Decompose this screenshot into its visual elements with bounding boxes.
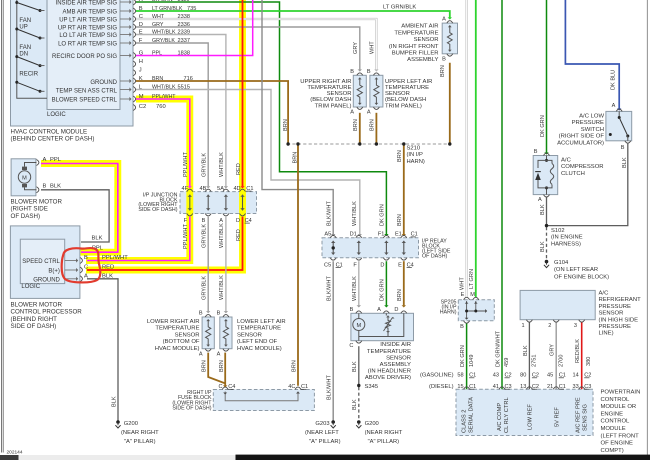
splice S210 junction dots: [286, 142, 451, 145]
wire BLK/WHT (from top of page to relay block A5): [262, 0, 335, 236]
svg-text:RED: RED: [236, 163, 242, 175]
svg-text:A: A: [377, 307, 381, 313]
wire DK GRN/WHT 459 (from top of page to PCM): [501, 0, 503, 389]
svg-text:58: 58: [457, 373, 463, 379]
fuse block pin arcs: [222, 387, 301, 389]
svg-text:WHT/BLK: WHT/BLK: [219, 275, 225, 300]
svg-text:5A: 5A: [217, 186, 224, 192]
svg-text:B: B: [534, 149, 538, 155]
svg-text:F: F: [184, 218, 188, 224]
svg-text:BLK/WHT: BLK/WHT: [327, 276, 333, 301]
svg-text:13: 13: [520, 384, 526, 390]
svg-text:B: B: [442, 56, 446, 62]
svg-text:TEMPERATURE: TEMPERATURE: [237, 326, 281, 332]
wire WHT/BLK 5515 (HVAC pin L to relay block D1): [136, 90, 362, 237]
svg-text:G104: G104: [554, 260, 569, 266]
svg-text:WHT: WHT: [460, 277, 466, 290]
splice S345: [357, 384, 360, 387]
thermistor in lower right sensor: [206, 319, 211, 346]
svg-text:A: A: [538, 197, 542, 203]
svg-text:HVAC MODULE): HVAC MODULE): [155, 346, 200, 352]
wire PPL/WHT 760 (junction block F to blower processor pin B): [87, 217, 190, 261]
svg-text:2336: 2336: [178, 22, 190, 28]
svg-text:BRN: BRN: [440, 65, 446, 77]
ground G200 left (near right A pillar): [115, 420, 120, 428]
svg-text:BLK: BLK: [92, 236, 103, 242]
svg-text:S102: S102: [551, 228, 565, 234]
lower left air temperature sensor box: [220, 317, 232, 349]
svg-text:BLK: BLK: [523, 345, 529, 356]
svg-text:MODULE: MODULE: [601, 426, 626, 432]
svg-text:ENGINE: ENGINE: [601, 411, 624, 417]
wire BLK (inside air sensor C to splice S345): [358, 346, 360, 384]
HVAC logic box: [47, 0, 120, 110]
svg-text:F: F: [139, 38, 143, 44]
svg-text:WHT: WHT: [370, 41, 376, 54]
svg-text:AMB AIR TEMP SIG: AMB AIR TEMP SIG: [63, 9, 118, 15]
svg-text:C2: C2: [139, 104, 146, 110]
svg-text:GROUND: GROUND: [90, 80, 117, 86]
svg-text:LT GRN/BLK: LT GRN/BLK: [383, 4, 416, 10]
wire WHT/BLK 2339 (HVAC pin E to junction block 5A): [136, 35, 228, 189]
svg-text:(NEAR RIGHT: (NEAR RIGHT: [365, 430, 403, 436]
svg-text:21: 21: [547, 384, 553, 390]
svg-text:BLK: BLK: [102, 273, 113, 279]
svg-text:14: 14: [572, 373, 578, 379]
A/C low pressure switch contacts: [609, 111, 630, 140]
svg-text:760: 760: [156, 104, 166, 110]
svg-text:B: B: [367, 69, 371, 75]
svg-text:WHT/BLK: WHT/BLK: [219, 152, 225, 177]
svg-text:FAN: FAN: [19, 18, 31, 24]
svg-text:SENSOR: SENSOR: [175, 332, 200, 338]
svg-text:1838: 1838: [178, 50, 190, 56]
processor pin arcs: [65, 258, 83, 282]
svg-text:380: 380: [586, 357, 592, 366]
I/P relay block box: [322, 238, 419, 258]
svg-text:GRY: GRY: [353, 42, 359, 54]
ground G104 (on left rear of engine block): [544, 260, 549, 268]
svg-text:G200: G200: [124, 421, 138, 427]
wire RED (junction block D to blower processor pin C): [87, 217, 243, 270]
svg-text:DK GRN: DK GRN: [540, 115, 546, 137]
svg-text:LOGIC: LOGIC: [21, 284, 40, 290]
svg-text:WHT/BLK: WHT/BLK: [219, 223, 225, 248]
svg-text:F1: F1: [378, 232, 385, 238]
wire PPL (blower motor pin A loop to processor): [41, 164, 118, 253]
svg-text:PRESSURE: PRESSURE: [572, 120, 604, 126]
wire BRN (lower left sensor A to fuse block pin C): [223, 353, 227, 388]
svg-text:735: 735: [187, 6, 196, 12]
svg-text:SENSOR: SENSOR: [237, 332, 262, 338]
svg-text:B: B: [202, 218, 206, 224]
svg-text:LO RT AIR TEMP SIG: LO RT AIR TEMP SIG: [58, 41, 117, 47]
svg-text:A/C: A/C: [561, 158, 572, 164]
svg-text:"A" PILLAR): "A" PILLAR): [124, 439, 156, 445]
svg-text:A/C: A/C: [599, 291, 610, 297]
svg-text:B: B: [621, 145, 625, 151]
HVAC switch bus: [17, 0, 47, 98]
page left border lines: [2, 0, 4, 453]
svg-text:(BEHIND RIGHT: (BEHIND RIGHT: [11, 316, 58, 323]
svg-text:DK GRN: DK GRN: [460, 345, 466, 367]
svg-text:K: K: [139, 76, 143, 82]
svg-text:A/C REF PRE: A/C REF PRE: [575, 397, 581, 433]
svg-text:A5: A5: [324, 232, 331, 238]
svg-text:CONTROL: CONTROL: [601, 397, 631, 403]
svg-text:WHT/BLK: WHT/BLK: [352, 201, 358, 226]
svg-text:A/C COMP: A/C COMP: [497, 403, 503, 431]
svg-text:BLOWER MOTOR: BLOWER MOTOR: [11, 198, 63, 205]
svg-text:SERIAL DATA: SERIAL DATA: [469, 397, 475, 433]
svg-text:(BOTTOM OF: (BOTTOM OF: [163, 339, 200, 345]
svg-text:PRESSURE: PRESSURE: [599, 324, 631, 330]
svg-text:TRIM PANEL): TRIM PANEL): [385, 103, 422, 109]
svg-text:C: C: [349, 343, 353, 349]
HVAC module pin arcs A-M and C2: [120, 0, 136, 111]
svg-text:B: B: [460, 324, 464, 330]
svg-text:A/C LOW: A/C LOW: [579, 114, 604, 120]
svg-text:OF DASH): OF DASH): [422, 253, 448, 259]
svg-text:B: B: [84, 255, 88, 261]
svg-text:BLK/WHT: BLK/WHT: [327, 375, 333, 400]
svg-text:4C: 4C: [288, 384, 295, 390]
svg-text:CL RLY CTRL: CL RLY CTRL: [504, 397, 510, 433]
red freehand annotation circle around processor pins: [62, 248, 101, 282]
ambient air temperature sensor box: [442, 23, 457, 54]
pressure sensor pin arcs: [526, 320, 584, 322]
svg-text:GRY: GRY: [152, 22, 164, 28]
svg-text:HVAC CONTROL MODULE: HVAC CONTROL MODULE: [11, 128, 88, 135]
wire BRN (relay block E to inside air sensor D): [402, 261, 406, 307]
svg-text:D: D: [380, 262, 384, 268]
svg-text:J: J: [139, 68, 142, 74]
I/P junction block box: [180, 192, 257, 214]
svg-text:WHT/BLK: WHT/BLK: [152, 84, 176, 90]
wire WHT/BLK (relay block F to inside air sensor B): [357, 261, 361, 307]
svg-text:BRN: BRN: [370, 119, 376, 131]
svg-text:DK GRN: DK GRN: [380, 204, 386, 226]
svg-text:G: G: [139, 50, 144, 56]
bottom scrollbar: [0, 455, 650, 460]
svg-text:ACCUMULATOR): ACCUMULATOR): [557, 140, 604, 146]
svg-text:A: A: [84, 273, 88, 279]
yellow highlight on blower motor PPL run: [41, 164, 118, 253]
wire BLK dashed (S345 to ground G200): [358, 387, 360, 421]
wire BLK (processor pin A to ground G200): [87, 279, 118, 421]
SP205 pin arcs: [464, 297, 479, 323]
svg-text:45: 45: [547, 373, 553, 379]
HVAC mode switches (FAN UP / FAN DN / RECIR): [15, 1, 44, 93]
svg-text:UPPER LEFT AIR: UPPER LEFT AIR: [385, 79, 432, 85]
wire BRN (upper right sensor A down to S210): [359, 113, 361, 144]
svg-text:PPL: PPL: [152, 50, 162, 56]
svg-text:BLK: BLK: [622, 157, 628, 168]
wire BRN (upper left sensor A down to S210): [375, 113, 377, 144]
svg-text:202144: 202144: [7, 450, 23, 456]
svg-text:GROUND: GROUND: [33, 277, 60, 283]
A/C low pressure switch box: [606, 111, 632, 140]
svg-text:RECIR: RECIR: [19, 71, 38, 77]
svg-text:S345: S345: [365, 384, 379, 390]
svg-text:5515: 5515: [178, 84, 190, 90]
svg-text:(IN HIGH SIDE: (IN HIGH SIDE: [599, 317, 639, 323]
svg-text:M: M: [139, 94, 144, 100]
svg-text:PPL/WHT: PPL/WHT: [152, 94, 176, 100]
yellow highlight on RED run: [86, 0, 243, 270]
svg-text:UP LT AIR TEMP SIG: UP LT AIR TEMP SIG: [59, 17, 117, 23]
svg-text:BLK: BLK: [352, 361, 358, 372]
wire RED/BLK 380 (pressure sensor 3 to PCM): [581, 323, 583, 390]
wire BRN (S210 down to relay block E1): [402, 144, 406, 236]
wire DK GRN 1049 (SP205 B to PCM): [466, 323, 468, 389]
svg-text:TEMPERATURE: TEMPERATURE: [394, 30, 438, 36]
svg-text:M: M: [470, 292, 475, 298]
page right border line: [646, 0, 648, 455]
svg-text:(IN I/P: (IN I/P: [407, 152, 424, 158]
svg-text:OF ENGINE BLOCK): OF ENGINE BLOCK): [554, 274, 609, 280]
svg-text:PPL/WHT: PPL/WHT: [183, 224, 189, 249]
svg-text:LOWER LEFT AIR: LOWER LEFT AIR: [237, 319, 286, 325]
svg-text:D: D: [236, 218, 240, 224]
svg-text:15: 15: [457, 384, 463, 390]
upper left air temperature sensor box: [370, 75, 383, 107]
thermistor in inside air sensor: [384, 316, 395, 334]
inside air sensor pin arcs: [356, 311, 407, 343]
svg-text:SENSOR: SENSOR: [327, 91, 352, 97]
svg-text:BLK: BLK: [540, 241, 546, 252]
splice S210 dashed bus (IN I/P HARN): [287, 143, 451, 145]
thermistor in ambient sensor: [447, 25, 452, 51]
svg-text:FAN: FAN: [19, 45, 31, 51]
svg-text:BLOWER MOTOR: BLOWER MOTOR: [11, 301, 63, 308]
wire PPL/WHT 760 (HVAC pin M to junction block 4F): [136, 99, 192, 188]
svg-text:80: 80: [520, 373, 526, 379]
svg-text:4F: 4F: [181, 186, 188, 192]
wire GRY 2336 (HVAC pin D to upper right sensor B): [136, 27, 362, 72]
svg-text:2700: 2700: [558, 355, 564, 367]
svg-text:2: 2: [548, 323, 551, 329]
svg-text:BRN: BRN: [397, 289, 403, 301]
thermistor in upper left sensor: [374, 78, 379, 105]
PCM internal pin function labels: [461, 397, 588, 433]
svg-text:TEMPERATURE: TEMPERATURE: [367, 349, 411, 355]
svg-text:"A" PILLAR): "A" PILLAR): [309, 439, 341, 445]
svg-text:LOW REF: LOW REF: [528, 404, 534, 430]
relay block pin arcs: [330, 235, 407, 260]
svg-text:REFRIGERANT: REFRIGERANT: [599, 297, 642, 303]
svg-text:CLUTCH: CLUTCH: [561, 171, 585, 177]
svg-text:BLK: BLK: [50, 183, 61, 189]
svg-text:716: 716: [184, 76, 193, 82]
svg-text:43: 43: [493, 373, 499, 379]
svg-text:WHT: WHT: [152, 14, 165, 20]
blower motor symbol M: [18, 163, 36, 190]
wire LT GRN/BLK 735 (HVAC pin B to ambient sensor A): [136, 11, 452, 20]
svg-text:(IN HEADLINER: (IN HEADLINER: [368, 369, 411, 375]
svg-text:ABOVE DRIVER): ABOVE DRIVER): [365, 375, 411, 381]
svg-text:D: D: [394, 307, 398, 313]
lower right air temperature sensor box: [202, 317, 214, 349]
svg-text:4D: 4D: [233, 186, 240, 192]
svg-text:RED/BLK: RED/BLK: [575, 339, 581, 363]
svg-text:BLK: BLK: [352, 399, 358, 410]
svg-text:H: H: [139, 59, 143, 65]
wire DK GRN (HVAC pin A to relay block F1): [136, 2, 389, 236]
svg-text:SENSOR: SENSOR: [414, 37, 439, 43]
svg-text:BRN: BRN: [397, 214, 403, 226]
svg-text:WHT/BLK: WHT/BLK: [352, 276, 358, 301]
svg-text:2339: 2339: [178, 29, 190, 35]
svg-text:HARN): HARN): [440, 310, 457, 316]
wire WHT 2338 (HVAC pin C to upper left sensor B): [136, 19, 379, 72]
wire GRY 2700 (pressure sensor 2 to PCM): [555, 323, 557, 390]
ground G203 (near left A pillar): [331, 420, 336, 428]
svg-text:DK GRN: DK GRN: [152, 0, 173, 3]
splice pack SP205 box: [458, 300, 494, 321]
svg-text:B: B: [199, 311, 203, 317]
svg-text:AMBIENT AIR: AMBIENT AIR: [401, 24, 438, 30]
A/C compressor clutch coil and diode: [535, 156, 554, 195]
svg-text:TEMPERATURE: TEMPERATURE: [155, 326, 199, 332]
svg-text:E: E: [398, 262, 402, 268]
svg-text:(LEFT END OF: (LEFT END OF: [237, 339, 278, 345]
svg-text:LOWER RIGHT AIR: LOWER RIGHT AIR: [147, 319, 200, 325]
svg-text:(BELOW DASH: (BELOW DASH: [310, 97, 351, 103]
wire BRN (lower right sensor A, joins lower left): [208, 353, 225, 384]
aspirator motor M in inside air sensor: [353, 313, 365, 336]
svg-text:BRN: BRN: [292, 152, 298, 164]
svg-text:TRIM PANEL): TRIM PANEL): [315, 103, 352, 109]
A/C refrigerant pressure sensor box: [520, 290, 595, 319]
svg-text:PPL: PPL: [50, 157, 62, 163]
svg-text:F: F: [353, 262, 357, 268]
wire WHT/BLK (junction block A to lower left sensor B): [224, 217, 228, 313]
svg-text:E1: E1: [395, 232, 402, 238]
upper right air temperature sensor box: [353, 75, 366, 107]
svg-text:A: A: [217, 352, 221, 358]
svg-text:BRN: BRN: [152, 76, 163, 82]
pressure switch pin arcs: [616, 109, 631, 143]
svg-text:D: D: [139, 22, 143, 28]
svg-text:5V REF: 5V REF: [554, 407, 560, 427]
svg-text:E: E: [461, 292, 465, 298]
svg-text:LT GRN/BLK: LT GRN/BLK: [152, 6, 183, 12]
svg-text:1: 1: [521, 323, 524, 329]
svg-text:LT GRN: LT GRN: [469, 269, 475, 289]
svg-text:HARNESS): HARNESS): [551, 242, 581, 248]
HVAC control module box (BEHIND CENTER OF DASH): [11, 0, 134, 126]
svg-text:33: 33: [572, 384, 578, 390]
svg-text:OF DASH): OF DASH): [11, 213, 41, 220]
svg-text:DN: DN: [19, 52, 28, 58]
svg-text:(RIGHT SIDE: (RIGHT SIDE: [11, 206, 48, 213]
svg-text:A: A: [367, 110, 371, 116]
svg-text:BRN: BRN: [202, 360, 208, 372]
svg-text:A: A: [219, 218, 223, 224]
wire PPL 1838 (HVAC pin G, exits top): [136, 0, 253, 56]
wire RED (from top of page through junction block 4D): [240, 0, 244, 188]
svg-text:BLK/WHT: BLK/WHT: [327, 201, 333, 226]
I/P junction block internal arrows: [188, 195, 245, 211]
ambient sensor pin arcs: [447, 21, 453, 56]
svg-text:B: B: [139, 6, 143, 12]
svg-text:SENSOR: SENSOR: [599, 311, 624, 317]
wire GRY/BLK 2337 (HVAC pin F to junction block 4B): [136, 43, 210, 188]
svg-text:M: M: [22, 176, 27, 182]
svg-text:UPPER RIGHT AIR: UPPER RIGHT AIR: [300, 79, 351, 85]
svg-text:2338: 2338: [178, 14, 190, 20]
wire BLK (pressure switch B to splice S102): [548, 144, 628, 226]
blower motor box: [11, 159, 36, 196]
wire BRN (fuse block 4C up to splice S210): [297, 144, 299, 386]
svg-text:A: A: [442, 17, 446, 23]
svg-text:E: E: [139, 29, 143, 35]
svg-text:RECIRC DOOR PO SIG: RECIRC DOOR PO SIG: [52, 54, 117, 60]
svg-text:3110: 3110: [178, 0, 190, 3]
svg-text:TEMPERATURE: TEMPERATURE: [307, 85, 351, 91]
wire LT GRN (from top of page to SP205 pin M): [475, 0, 477, 297]
junction block pin arcs: [187, 189, 246, 216]
ground G200 right (near right A pillar): [356, 420, 361, 428]
wire BLK dashed (S102 to ground G104): [546, 227, 548, 260]
blower motor control processor box: [10, 226, 80, 299]
svg-text:1049: 1049: [469, 355, 475, 367]
svg-text:A: A: [350, 110, 354, 116]
wire WHT (from top of page to SP205 pin E): [466, 0, 468, 297]
rotated wire labels: [111, 41, 628, 410]
svg-text:C: C: [139, 14, 143, 20]
svg-text:COMPT): COMPT): [601, 448, 624, 454]
wire BLK (clutch A to splice S102): [546, 197, 548, 225]
svg-text:BLK: BLK: [540, 204, 546, 215]
svg-text:SIDE OF DASH): SIDE OF DASH): [11, 323, 57, 330]
svg-text:OF ENGINE: OF ENGINE: [601, 441, 633, 447]
svg-text:4B: 4B: [199, 186, 206, 192]
svg-text:S210: S210: [407, 145, 421, 151]
wire BRN 716 (HVAC pin K to splice S210): [136, 81, 288, 143]
svg-text:LO LT AIR TEMP SIG: LO LT AIR TEMP SIG: [59, 33, 117, 39]
svg-text:B: B: [350, 69, 354, 75]
svg-text:PPL/WHT: PPL/WHT: [183, 152, 189, 177]
inside air temperature sensor assembly box: [351, 313, 414, 340]
wire BRN (ambient sensor B down to S210): [449, 63, 451, 144]
svg-text:ASSEMBLY: ASSEMBLY: [407, 57, 438, 63]
upper sensors pin arcs: [357, 73, 380, 110]
svg-text:RED: RED: [102, 264, 114, 270]
wire DK BLU (from top of page to A/C low pressure switch A): [565, 0, 621, 111]
wire GRY/BLK (junction block B to lower right sensor B): [206, 217, 210, 313]
svg-text:B(+): B(+): [48, 268, 60, 274]
svg-text:SENS SIG: SENS SIG: [583, 404, 589, 431]
svg-text:LINE): LINE): [599, 331, 614, 337]
wire inside right I/P fuse block (C to 4C): [223, 392, 300, 401]
blower motor pin arcs: [37, 160, 39, 193]
svg-text:SIDE OF DASH): SIDE OF DASH): [172, 406, 211, 412]
svg-text:INSIDE AIR TEMP SIG: INSIDE AIR TEMP SIG: [56, 0, 118, 6]
svg-text:B: B: [217, 311, 221, 317]
svg-text:CLASS 2: CLASS 2: [461, 410, 467, 433]
PCM pin arcs: [464, 387, 585, 389]
svg-text:BUMPER FILLER: BUMPER FILLER: [392, 51, 439, 57]
right I/P fuse block box: [213, 390, 314, 411]
svg-text:HARN): HARN): [407, 159, 425, 165]
svg-text:3: 3: [574, 323, 577, 329]
svg-text:(ON LEFT REAR: (ON LEFT REAR: [554, 267, 598, 273]
wire DK GRN (from top of page to A/C compressor clutch B): [544, 0, 548, 155]
thermistor in lower left sensor: [223, 319, 228, 346]
svg-text:SPEED CTRL: SPEED CTRL: [22, 259, 60, 265]
